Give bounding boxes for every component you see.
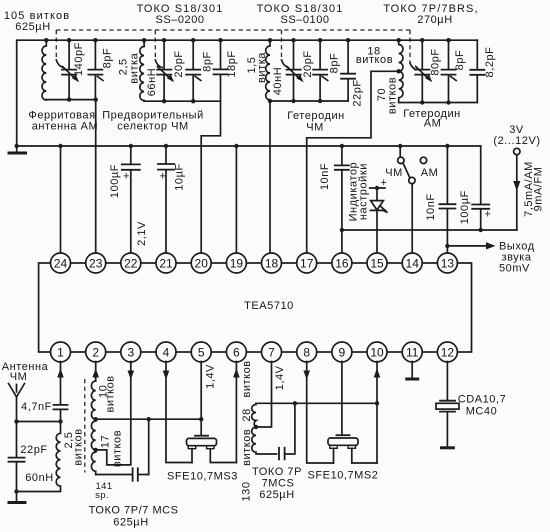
svg-text:12: 12 — [441, 345, 455, 359]
wire top bus — [17, 39, 478, 41]
capacitor 20pF variable selector — [157, 40, 185, 101]
pin 5 — [191, 342, 211, 362]
wire pin7 to coil tap — [256, 362, 272, 428]
LED tuning indicator — [370, 177, 389, 254]
capacitor 8,2pF on right edge — [470, 40, 496, 102]
wire antenna section bottom bar — [46, 99, 95, 101]
supply 3V terminal — [493, 124, 544, 230]
svg-text:7: 7 — [268, 345, 275, 359]
svg-text:23: 23 — [89, 256, 103, 270]
capacitor series 130 winding — [279, 403, 295, 459]
leader hook 140pF — [56, 60, 63, 68]
svg-text:2,1V: 2,1V — [136, 221, 148, 246]
label ТОКО 7Р 7MCS 625µH — [252, 466, 302, 501]
inductor 17 витков winding — [91, 419, 95, 450]
wire pin10 with up arrow — [374, 362, 381, 464]
svg-text:18: 18 — [265, 256, 279, 270]
svg-text:+: + — [160, 171, 167, 183]
svg-text:10nF: 10nF — [319, 163, 331, 190]
label 1,5 витка — [246, 52, 268, 83]
capacitor 8pF antenna — [88, 40, 113, 99]
svg-text:625µН: 625µН — [259, 489, 294, 501]
label TOKO S18/301 SS-0100 — [257, 3, 344, 26]
svg-text:7МСS: 7МСS — [262, 478, 295, 490]
node 28в coil tap — [254, 425, 258, 429]
svg-text:витков: витков — [72, 428, 84, 465]
svg-text:+: + — [485, 209, 492, 221]
label 18 витков — [356, 46, 393, 67]
wire AM osc bottom bar — [399, 102, 478, 104]
svg-text:16: 16 — [335, 256, 349, 270]
svg-text:ТОКО 7Р/7 МСS: ТОКО 7Р/7 МСS — [89, 505, 179, 517]
pin 6 — [226, 342, 246, 362]
svg-text:20pF: 20pF — [173, 50, 185, 77]
svg-text:антенна АМ: антенна АМ — [32, 121, 99, 133]
wire A tap to SFE — [96, 418, 202, 420]
svg-text:ТОКО 7Р: ТОКО 7Р — [252, 466, 302, 478]
pin 22 — [121, 253, 141, 273]
svg-text:4,7nF: 4,7nF — [21, 401, 52, 413]
dashed leader to 20pF selector — [154, 30, 156, 60]
svg-text:витка: витка — [128, 52, 140, 83]
label TOKO S18/301 SS-0200 — [137, 3, 224, 26]
svg-text:ЧМ: ЧМ — [10, 371, 28, 383]
wire FM osc bottom bar — [270, 100, 348, 102]
pin 17 — [297, 253, 317, 273]
wire lower rail — [342, 229, 517, 231]
svg-text:13: 13 — [441, 256, 455, 270]
svg-text:270µН: 270µН — [417, 14, 452, 26]
svg-text:8pF: 8pF — [329, 53, 341, 74]
switch ЧМ/АМ — [385, 146, 438, 254]
svg-text:21: 21 — [159, 256, 173, 270]
svg-text:8pF: 8pF — [102, 48, 114, 69]
wire pin 19 to rail — [235, 146, 237, 254]
capacitor 100µF supply — [459, 146, 491, 230]
transformer core dashed — [84, 379, 86, 473]
pin 1 — [51, 342, 71, 362]
node bus dots antenna — [44, 38, 48, 42]
capacitor 80pF variable — [415, 40, 441, 102]
label 130 витков — [240, 429, 252, 502]
svg-text:4: 4 — [163, 345, 170, 359]
svg-text:66нН: 66нН — [146, 68, 158, 96]
svg-text:1,4V: 1,4V — [204, 364, 216, 389]
capacitor 4,7nF — [21, 401, 67, 422]
pin 14 — [402, 253, 422, 273]
filter SFE10,7MS2 — [308, 435, 379, 481]
node lower rail dots — [340, 228, 344, 232]
pin 12 — [437, 342, 457, 362]
svg-text:sp.: sp. — [95, 490, 109, 501]
label Ферритовая антенна АМ — [28, 110, 98, 133]
inductor ferrite antenna coil — [42, 40, 46, 100]
capacitor 10µF pin21 — [158, 146, 186, 254]
label Гетеродин ЧМ — [287, 110, 345, 134]
svg-text:20pF: 20pF — [302, 50, 314, 77]
svg-text:МС40: МС40 — [466, 406, 498, 418]
node pin1 branch tee — [58, 419, 62, 423]
pin 3 — [121, 342, 141, 362]
node bus dots AM osc — [397, 38, 401, 42]
wire AM osc tap to pin 17 — [307, 71, 399, 253]
wire FM osc output to pin 18 — [269, 101, 271, 254]
capacitor 18pF — [214, 40, 239, 101]
svg-text:11: 11 — [406, 345, 419, 359]
wire ground rail — [17, 145, 481, 147]
ground antenna — [8, 492, 27, 503]
svg-text:настройки: настройки — [357, 163, 369, 220]
label 2,5 витков — [63, 428, 85, 465]
label 17 витков — [99, 430, 123, 467]
wire pin6 with up arrow — [233, 362, 240, 463]
label TOKO 7P/7BRS 270µH — [383, 3, 478, 26]
svg-text:625µН: 625µН — [15, 21, 50, 33]
capacitor 8pF FM osc — [313, 40, 340, 101]
label 2,5 витка — [117, 52, 140, 83]
svg-text:9: 9 — [339, 345, 346, 359]
svg-text:витка: витка — [256, 52, 268, 83]
svg-text:АМ: АМ — [421, 167, 439, 179]
node 17 витков tap — [94, 448, 98, 452]
label Предворительный селектор ЧМ — [102, 110, 204, 133]
resonator CDA10,7 MC40 — [436, 394, 506, 447]
wire antenna output to pin 23 — [95, 100, 97, 254]
svg-text:8pF: 8pF — [202, 51, 214, 72]
svg-text:1,4V: 1,4V — [274, 365, 286, 390]
svg-text:селектор ЧМ: селектор ЧМ — [117, 121, 188, 133]
wire pin11 to ground — [411, 362, 413, 378]
inductor 28/130 витков coil — [252, 403, 277, 454]
dashed leader to 80pF AM osc — [409, 30, 411, 63]
wire 17 tap step to pin 3 — [96, 362, 131, 465]
svg-text:ТЕА5710: ТЕА5710 — [244, 300, 294, 312]
svg-text:10: 10 — [370, 345, 384, 359]
svg-text:28: 28 — [241, 408, 253, 421]
svg-text:ЧМ: ЧМ — [306, 122, 324, 134]
node bus dots FM osc — [268, 38, 272, 42]
inductor 2,5 витков coil — [17, 422, 61, 492]
svg-text:3: 3 — [127, 345, 134, 359]
pin 16 — [332, 253, 352, 273]
svg-text:SFЕ10,7МS3: SFЕ10,7МS3 — [167, 471, 238, 483]
svg-text:9mА/FМ: 9mА/FМ — [533, 167, 545, 212]
pin 20 — [191, 253, 211, 273]
svg-text:1: 1 — [57, 345, 64, 359]
inductor AM osc coil 18+70 витков — [399, 40, 403, 102]
dashed leader to 140pF — [55, 30, 57, 60]
inductor 66nH coil — [140, 40, 144, 101]
pin 8 — [297, 342, 317, 362]
pin 24 — [51, 253, 71, 273]
wire pin8 with down arrow — [303, 362, 333, 464]
svg-text:24: 24 — [54, 256, 68, 270]
leader hook 20pF osc — [282, 60, 289, 68]
label ТОКО 7Р/7 MCS 625µH — [89, 505, 179, 529]
node AM osc bar dots — [420, 100, 424, 104]
svg-text:19: 19 — [230, 256, 244, 270]
wire tee to antenna — [17, 421, 61, 423]
ground top-left — [8, 146, 28, 153]
svg-text:(2...12V): (2...12V) — [493, 135, 540, 147]
svg-text:22pF: 22pF — [20, 444, 47, 456]
svg-text:2: 2 — [92, 345, 99, 359]
svg-text:10nF: 10nF — [425, 193, 437, 220]
audio output arrow Выход звука 50mV — [445, 241, 534, 275]
label 10 витков — [98, 375, 117, 412]
capacitor 20pF variable FM osc — [287, 40, 315, 101]
svg-text:17: 17 — [99, 435, 111, 448]
inductor 141 sp winding — [91, 450, 95, 475]
svg-text:6: 6 — [233, 345, 240, 359]
node 10/17 junction — [94, 417, 98, 421]
svg-text:+: + — [123, 171, 130, 183]
pin 13 — [437, 253, 457, 273]
capacitor 8pF AM osc — [442, 40, 467, 102]
capacitor 10nF pin16 — [319, 146, 349, 254]
node bus dots selector — [142, 38, 146, 42]
wire pin9 to SFE2 — [341, 362, 343, 435]
svg-text:17: 17 — [300, 256, 314, 270]
svg-text:10µF: 10µF — [174, 163, 186, 191]
node rail dots — [15, 144, 19, 148]
svg-text:SFЕ10,7МS2: SFЕ10,7МS2 — [308, 470, 379, 482]
svg-text:40нН: 40нН — [272, 67, 284, 95]
node AM coil tap — [397, 69, 401, 73]
svg-text:Гетеродин: Гетеродин — [287, 110, 345, 122]
pin 23 — [86, 253, 106, 273]
label Гетеродин АМ — [403, 108, 461, 130]
svg-text:100µF: 100µF — [109, 164, 121, 198]
svg-text:625µН: 625µН — [113, 517, 148, 529]
ground resonator — [440, 446, 455, 449]
pin 7 — [262, 342, 282, 362]
wire pin5 to wire A — [200, 362, 202, 420]
capacitor 100µF pin22 — [109, 146, 148, 254]
svg-text:50mV: 50mV — [499, 263, 530, 275]
capacitor 22pF — [9, 422, 48, 492]
wire pin4 with down arrow — [163, 362, 192, 463]
pin 11 — [402, 342, 422, 362]
pin 10 — [367, 342, 387, 362]
svg-text:15: 15 — [370, 256, 384, 270]
node antenna ground junction — [14, 489, 18, 493]
pin 15 — [367, 253, 387, 273]
capacitor 140pF variable — [62, 40, 85, 99]
wire pin2 with up arrow — [92, 362, 99, 382]
capacitor 22pF — [341, 40, 363, 106]
svg-text:130: 130 — [240, 481, 252, 501]
leader hook 20pF — [155, 60, 162, 68]
svg-text:14: 14 — [406, 256, 420, 270]
pin 18 — [262, 253, 282, 273]
dashed leader to 20pF FM osc — [281, 30, 283, 60]
antenna FM symbol — [2, 361, 49, 422]
svg-text:витков: витков — [386, 77, 398, 114]
svg-text:АМ: АМ — [424, 118, 442, 130]
capacitor series 141 winding — [96, 419, 149, 481]
label 28 витков — [241, 360, 253, 421]
capacitor 10nF pin13 — [425, 146, 455, 254]
pin 2 — [86, 342, 106, 362]
svg-text:витков: витков — [105, 375, 117, 412]
wire pin1 with up arrow — [57, 362, 64, 405]
inductor 40nH coil — [266, 40, 270, 101]
capacitor 8pF selector — [186, 40, 213, 101]
filter SFE10,7MS3 — [167, 419, 238, 482]
svg-text:100µF: 100µF — [459, 190, 471, 224]
wire coil top horizontal — [256, 402, 377, 404]
svg-text:22: 22 — [124, 256, 138, 270]
label 141 sp. — [95, 481, 112, 501]
wire bus left drop — [16, 40, 18, 146]
svg-text:ЧМ: ЧМ — [385, 167, 403, 179]
svg-text:8: 8 — [303, 345, 310, 359]
wire pin12 to resonator — [446, 362, 448, 400]
svg-text:витков: витков — [241, 360, 253, 397]
svg-text:22pF: 22pF — [352, 79, 364, 106]
pin 4 — [156, 342, 176, 362]
node FM osc bar dots — [268, 99, 272, 103]
wire pin 24 to rail — [60, 146, 62, 254]
pin 21 — [156, 253, 176, 273]
svg-text:5: 5 — [198, 345, 205, 359]
label 105 витков 625µH — [4, 10, 70, 33]
svg-text:80pF: 80pF — [430, 48, 442, 75]
inductor 10 витков winding — [91, 381, 95, 419]
label Индикатор настройки — [348, 162, 370, 222]
node antenna bar dots — [67, 97, 71, 101]
svg-text:8,2pF: 8,2pF — [484, 47, 496, 78]
svg-text:60nН: 60nН — [25, 472, 54, 484]
svg-text:8pF: 8pF — [454, 50, 466, 71]
pin 19 — [226, 253, 246, 273]
op-amp IC body TEA5710 — [39, 263, 472, 352]
wire selector bottom bar — [144, 100, 220, 102]
dashed leader line horizontal — [56, 29, 410, 31]
leader hook 80pF — [410, 63, 416, 70]
svg-text:витков: витков — [111, 430, 123, 467]
ground pin11 — [405, 378, 419, 381]
label 70 витков — [376, 77, 398, 114]
svg-text:витков: витков — [356, 54, 393, 66]
svg-text:140pF: 140pF — [73, 42, 85, 76]
node selector bar dots — [162, 99, 166, 103]
svg-text:20: 20 — [195, 256, 209, 270]
svg-text:СDА10,7: СDА10,7 — [458, 394, 506, 406]
pin 9 — [332, 342, 352, 362]
arrow pin3 down — [128, 371, 135, 380]
svg-text:SS–0200: SS–0200 — [155, 14, 204, 26]
svg-text:18pF: 18pF — [226, 50, 238, 77]
wire selector output step to pin 20 — [201, 101, 220, 253]
svg-text:SS–0100: SS–0100 — [280, 14, 329, 26]
